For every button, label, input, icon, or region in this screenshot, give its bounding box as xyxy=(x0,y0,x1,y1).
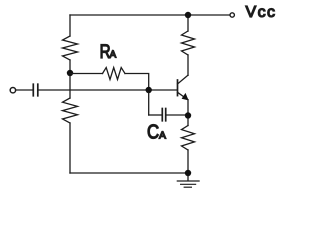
resistor RA lead from node A xyxy=(70,73,103,75)
node A (divider midpoint junction dot) xyxy=(67,70,73,76)
ground xyxy=(187,176,189,181)
node B (base junction dot) xyxy=(146,87,152,93)
capacitor CA plate right xyxy=(165,109,167,121)
terminal Vcc xyxy=(230,13,234,17)
wire CA left lead xyxy=(149,114,162,116)
svg-text:A: A xyxy=(110,50,117,61)
svg-text:A: A xyxy=(159,131,166,142)
input terminal xyxy=(10,88,15,93)
wire node A down through crossing xyxy=(69,76,71,98)
wire input to coupling cap xyxy=(16,89,33,91)
svg-text:Vcc: Vcc xyxy=(246,4,277,21)
resistor RC (collector) xyxy=(182,31,195,55)
node G (ground junction dot) xyxy=(185,170,191,176)
capacitor CA plate left xyxy=(161,109,163,121)
node E (emitter junction dot) xyxy=(185,112,191,118)
wire RC to top rail xyxy=(187,15,189,31)
wire top rail Vcc xyxy=(70,14,229,16)
transistor Q1 emitter arrowhead xyxy=(182,93,189,101)
svg-text:C: C xyxy=(147,120,159,143)
transistor Q1 base bar xyxy=(177,80,179,96)
resistor RE (emitter) xyxy=(182,126,195,151)
wire node E to RE xyxy=(187,119,189,126)
wire CA right lead to node E xyxy=(166,114,185,116)
wire RE to ground node xyxy=(187,150,189,173)
transistor Q1 emitter stroke xyxy=(178,92,188,99)
wire emitter down to node E xyxy=(187,100,189,113)
wire node B down to CA xyxy=(148,93,150,115)
wire RA to base node xyxy=(125,74,149,91)
capacitor C-in plate right xyxy=(37,84,39,96)
wire left rail upper segment xyxy=(69,15,71,36)
wire R1 to node A xyxy=(69,60,71,73)
capacitor C-in plate left xyxy=(32,84,34,96)
transistor Q1 collector stroke xyxy=(178,75,189,84)
resistor R2 (lower bias divider) xyxy=(63,98,78,123)
resistor RA xyxy=(103,68,126,80)
wire left rail lower segment xyxy=(69,123,71,173)
node Vcc rail junction dot xyxy=(185,12,191,18)
wire bottom rail xyxy=(70,172,188,174)
wire base line xyxy=(38,89,177,91)
wire collector up xyxy=(187,55,189,75)
resistor R1 (upper bias divider) xyxy=(63,36,78,60)
